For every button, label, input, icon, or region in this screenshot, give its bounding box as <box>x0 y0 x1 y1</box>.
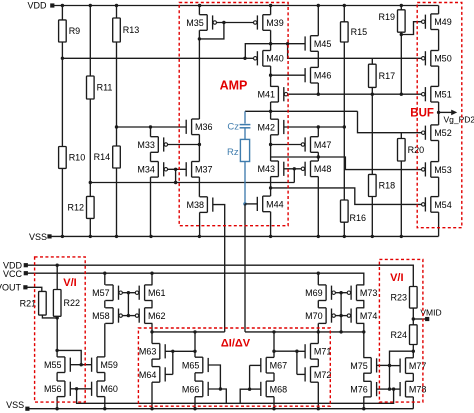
wire <box>61 168 63 236</box>
wire right bias rail y58 <box>288 44 422 59</box>
svg-text:M49: M49 <box>434 17 452 27</box>
wire <box>438 177 440 196</box>
junction gate tie upper <box>127 291 130 294</box>
junction R22 top <box>56 264 59 267</box>
junction M63 gate <box>171 350 174 353</box>
junction M71 gate <box>295 350 298 353</box>
transistor M45 <box>305 36 331 52</box>
wire <box>56 397 58 409</box>
junction VSS rail <box>61 235 64 238</box>
svg-text:M39: M39 <box>266 18 284 28</box>
wire M38 gate feedback <box>213 205 225 332</box>
svg-text:VOUT: VOUT <box>0 283 21 293</box>
junction VDD rail <box>89 4 92 7</box>
transistor M38 <box>186 197 212 213</box>
wire M44 gate <box>245 203 257 205</box>
svg-text:V/I: V/I <box>63 277 76 289</box>
junction R21-R22 <box>56 316 59 319</box>
wire <box>56 265 58 289</box>
junction M77 gate <box>388 364 391 367</box>
wire M56-M60 gate line <box>70 388 91 390</box>
wire <box>273 397 275 409</box>
wire <box>317 382 319 409</box>
junction VDD rail <box>198 4 201 7</box>
node R9 bottom <box>61 57 64 60</box>
junction VDD rail <box>61 4 64 7</box>
svg-text:M59: M59 <box>100 360 118 370</box>
svg-text:M58: M58 <box>92 311 110 321</box>
wire <box>56 373 58 382</box>
svg-text:Vg_PD2: Vg_PD2 <box>444 114 474 124</box>
svg-text:M42: M42 <box>257 122 275 132</box>
junction interconnect <box>362 330 365 333</box>
svg-text:BUF: BUF <box>410 108 434 120</box>
node VCC terminal <box>24 271 28 275</box>
resistor R10 <box>59 147 86 169</box>
wire rail y94 <box>288 93 422 95</box>
wire Cz to Rz <box>244 128 246 140</box>
junction VSS rail <box>198 235 201 238</box>
block border dI/dV <box>138 328 330 406</box>
junction M39 drain <box>269 42 272 45</box>
transistor M63 <box>139 344 165 360</box>
wire <box>343 6 345 22</box>
wire <box>400 133 402 139</box>
svg-text:M71: M71 <box>314 347 332 357</box>
wire <box>317 127 319 137</box>
wire <box>151 382 153 409</box>
svg-text:R23: R23 <box>390 293 407 303</box>
junction M40 drain <box>269 74 272 77</box>
junction VCC rail <box>150 272 153 275</box>
wire <box>412 308 414 325</box>
resistor R24 <box>390 325 417 345</box>
junction VSS rail <box>343 235 346 238</box>
svg-text:VSS: VSS <box>6 400 24 410</box>
junction rail y182 <box>174 181 177 184</box>
svg-text:M52: M52 <box>434 128 452 138</box>
svg-text:R10: R10 <box>69 153 86 163</box>
junction R15-R16 <box>343 125 346 128</box>
transistor M62 <box>135 308 165 324</box>
wire <box>198 30 200 119</box>
wire M40d to M46 gate <box>271 74 306 76</box>
wire M43 gate tie <box>284 168 302 170</box>
svg-text:Rz: Rz <box>227 147 239 158</box>
svg-text:M56: M56 <box>44 384 62 394</box>
wire <box>56 350 58 357</box>
transistor M42 <box>257 119 283 135</box>
transistor M51 <box>422 86 452 102</box>
svg-text:ΔI/ΔV: ΔI/ΔV <box>221 337 251 349</box>
junction interconnect <box>150 330 153 333</box>
transistor M69 <box>305 285 335 301</box>
resistor R18 <box>369 174 396 196</box>
wire VSS2 rail <box>27 408 413 410</box>
svg-text:R9: R9 <box>69 26 81 36</box>
wire <box>412 397 414 409</box>
wire feedback to bottom block <box>244 204 246 332</box>
wire R24 tie to gates <box>390 351 414 389</box>
node VSS terminal <box>47 234 51 238</box>
svg-text:M75: M75 <box>350 361 368 371</box>
wire M63 gate tie <box>165 350 195 352</box>
wire <box>317 177 319 237</box>
svg-text:M44: M44 <box>266 199 284 209</box>
svg-text:M76: M76 <box>350 385 368 395</box>
wire <box>104 397 106 409</box>
wire rail y111 <box>245 110 358 112</box>
junction M70 gate <box>339 314 342 317</box>
junction VSS2 rail <box>272 407 275 410</box>
wire <box>438 212 440 236</box>
svg-text:M65: M65 <box>182 360 200 370</box>
svg-text:M48: M48 <box>314 164 332 174</box>
svg-text:R12: R12 <box>67 203 84 213</box>
wire <box>317 51 319 67</box>
resistor R11 <box>87 76 113 99</box>
svg-text:M57: M57 <box>92 288 110 298</box>
junction VDD rail <box>343 4 346 7</box>
transistor M65 <box>182 357 208 373</box>
wire <box>150 127 152 137</box>
wire VOUT to R21 <box>25 287 42 291</box>
transistor M68 <box>261 381 287 397</box>
junction M35 diode tie <box>222 21 225 24</box>
resistor R16 <box>341 200 367 223</box>
wire <box>340 293 342 332</box>
wire M58-M62 gate tie <box>122 315 135 317</box>
wire M42 gate rail <box>284 126 345 128</box>
junction VSS rail <box>400 235 403 238</box>
wire <box>363 397 365 409</box>
junction VSS2 rail <box>317 407 320 410</box>
junction VSS2 rail <box>362 407 365 410</box>
junction M78 gate <box>388 387 391 390</box>
transistor M61 <box>135 285 165 301</box>
transistor M54 <box>422 197 452 213</box>
wire M64 gate <box>165 373 173 375</box>
wire <box>363 301 365 308</box>
svg-text:R15: R15 <box>351 27 368 37</box>
svg-text:M37: M37 <box>195 165 213 175</box>
wire M65-M66 gate tie <box>208 365 220 389</box>
junction VSS rail <box>269 235 272 238</box>
transistor M46 <box>305 67 331 83</box>
resistor R21 <box>20 291 47 315</box>
junction M33 source <box>149 125 152 128</box>
junction M41 drain <box>269 110 272 113</box>
svg-text:M51: M51 <box>434 90 452 100</box>
wire <box>371 87 373 174</box>
svg-text:M36: M36 <box>195 122 213 132</box>
wire M55 diode tie <box>57 350 81 364</box>
wire Rz bottom <box>244 162 246 204</box>
wire <box>61 6 63 20</box>
wire M75 gate <box>377 364 390 366</box>
transistor M74 <box>347 308 377 324</box>
resistor R22 <box>53 290 80 317</box>
svg-text:M43: M43 <box>257 164 275 174</box>
block border BUF <box>417 3 462 228</box>
transistor M58 <box>92 308 122 324</box>
wire M42d to M47 gate <box>271 144 302 146</box>
transistor M70 <box>305 308 335 324</box>
wire <box>116 6 118 19</box>
junction VSS rail <box>89 235 92 238</box>
junction M43 gate <box>293 167 296 170</box>
wire M52 gate line <box>358 111 422 132</box>
svg-text:R20: R20 <box>408 145 425 155</box>
junction M34 gate <box>174 168 177 171</box>
transistor M40 <box>254 51 284 67</box>
wire <box>412 345 414 352</box>
svg-text:M60: M60 <box>100 384 118 394</box>
svg-text:Cz: Cz <box>227 122 239 133</box>
wire <box>199 212 201 236</box>
wire <box>198 135 200 162</box>
junction R19 bottom <box>400 33 403 36</box>
node Vg_PD2 output arrow <box>439 110 474 125</box>
resistor Rz <box>227 139 250 161</box>
wire <box>56 316 58 350</box>
svg-text:M54: M54 <box>434 200 452 210</box>
wire <box>127 293 129 316</box>
wire <box>317 359 319 367</box>
svg-text:AMP: AMP <box>220 79 248 93</box>
wire <box>89 218 91 236</box>
junction M47-M48 <box>317 155 320 158</box>
svg-text:R16: R16 <box>350 213 367 223</box>
wire <box>438 102 440 125</box>
transistor M36 <box>186 119 212 135</box>
wire <box>61 58 63 146</box>
transistor M34 <box>137 162 167 178</box>
junction M35 drain <box>198 37 201 40</box>
node VSS2 terminal <box>25 407 29 411</box>
svg-text:R14: R14 <box>94 152 111 162</box>
svg-text:M61: M61 <box>148 288 166 298</box>
node VDD2 terminal <box>24 263 28 267</box>
wire Cz top connection <box>244 111 246 123</box>
svg-text:R11: R11 <box>97 83 113 93</box>
wire M78 gate stub <box>390 388 401 390</box>
resistor R14 <box>94 146 121 168</box>
transistor M50 <box>422 51 452 67</box>
svg-text:R18: R18 <box>379 181 396 191</box>
junction VSS2 rail <box>150 407 153 410</box>
wire <box>61 42 63 58</box>
wire <box>198 6 200 15</box>
wire M66 gate line <box>208 389 226 403</box>
wire <box>270 212 272 237</box>
wire <box>194 397 196 409</box>
junction VDD rail <box>269 4 272 7</box>
wire <box>116 168 118 236</box>
transistor M71 <box>305 344 331 360</box>
wire <box>363 373 365 381</box>
wire <box>317 301 319 308</box>
svg-text:M35: M35 <box>186 18 204 28</box>
svg-text:M73: M73 <box>360 288 378 298</box>
wire VDD2 rail <box>26 265 414 286</box>
wire M55-M59 gate line <box>70 364 91 366</box>
transistor M56 <box>44 381 70 397</box>
svg-text:M45: M45 <box>314 39 332 49</box>
wire <box>400 32 402 94</box>
wire <box>270 66 272 87</box>
junction M69 gate <box>339 291 342 294</box>
transistor M43 <box>257 161 283 177</box>
resistor R19 <box>378 10 405 32</box>
wire <box>317 273 319 285</box>
wire bias rail y127 <box>117 126 186 128</box>
svg-text:R21: R21 <box>20 298 37 308</box>
wire <box>400 161 402 236</box>
wire <box>343 42 345 200</box>
wire <box>371 197 373 237</box>
wire <box>151 323 153 343</box>
transistor M67 <box>261 357 287 373</box>
wire <box>343 222 345 236</box>
wire <box>400 6 402 10</box>
transistor M59 <box>92 357 118 373</box>
svg-text:M33: M33 <box>137 140 155 150</box>
transistor M75 <box>350 358 376 374</box>
wire <box>270 30 272 50</box>
svg-text:M53: M53 <box>434 165 452 175</box>
wire <box>438 141 440 162</box>
junction net split <box>286 42 289 45</box>
resistor R15 <box>341 22 368 42</box>
wire R17 top tap <box>371 58 373 64</box>
transistor M39 <box>254 15 284 31</box>
wire <box>104 273 106 285</box>
junction interconnect <box>317 330 320 333</box>
junction gate tie lower <box>127 314 130 317</box>
wire M77 gate stub <box>390 365 401 367</box>
wire <box>151 359 153 367</box>
transistor M78 <box>400 381 426 397</box>
node VMID junction <box>412 317 415 320</box>
transistor M37 <box>186 162 212 178</box>
wire <box>438 6 440 14</box>
wire <box>270 6 272 15</box>
wire to M71-M72 gates <box>274 350 297 352</box>
resistor R12 <box>67 196 94 218</box>
svg-text:M67: M67 <box>270 361 288 371</box>
wire <box>317 323 319 343</box>
junction Rz-M44 gate <box>243 202 247 206</box>
wire <box>104 323 106 357</box>
svg-text:M41: M41 <box>257 90 275 100</box>
resistor R20 <box>398 139 425 162</box>
svg-text:M47: M47 <box>314 140 332 150</box>
junction VDD rail <box>317 4 320 7</box>
wire M71 gate stub <box>297 350 305 352</box>
wire <box>270 177 272 197</box>
wire M40 gate stub <box>245 57 253 59</box>
transistor M77 <box>400 358 426 374</box>
wire net y157 <box>271 157 422 170</box>
junction VCC rail <box>317 272 320 275</box>
junction VSS2 rail <box>55 407 58 410</box>
wire <box>151 273 153 285</box>
wire <box>317 6 319 36</box>
junction long link end <box>392 387 395 390</box>
wire <box>199 23 224 39</box>
wire M33 gate to M36/M37 node <box>168 144 200 146</box>
junction VCC rail <box>103 272 106 275</box>
junction M65 source <box>193 350 196 353</box>
wire <box>104 373 106 382</box>
junction VSS rail <box>317 235 320 238</box>
wire R19 to M49 gate <box>401 22 421 35</box>
wire <box>89 183 91 197</box>
junction VSS2 rail <box>103 407 106 410</box>
wire <box>293 169 295 183</box>
node R13-R14 <box>115 125 118 128</box>
wire <box>363 323 365 357</box>
wire net y188 to M54 gate <box>271 188 422 205</box>
transistor M72 <box>305 367 331 383</box>
junction R17-R18 tap <box>371 93 374 96</box>
wire <box>273 373 275 381</box>
node R11 bottom <box>89 181 92 184</box>
junction M42 drain <box>269 143 272 146</box>
junction M43 drain <box>269 186 272 189</box>
transistor M53 <box>422 162 452 178</box>
junction M55 source <box>55 349 58 352</box>
svg-text:M50: M50 <box>434 54 452 64</box>
node Vg_PD2 <box>437 111 440 114</box>
wire <box>175 169 177 182</box>
wire <box>412 351 414 358</box>
wire <box>438 66 440 86</box>
wire <box>104 301 106 308</box>
svg-text:M63: M63 <box>139 347 157 357</box>
svg-text:M78: M78 <box>409 385 427 395</box>
transistor M33 <box>137 137 167 153</box>
svg-text:VCC: VCC <box>3 269 23 279</box>
svg-text:R24: R24 <box>390 330 407 340</box>
transistor M60 <box>92 381 118 397</box>
svg-text:M77: M77 <box>409 361 427 371</box>
junction M67 source <box>272 350 275 353</box>
block border V/I right <box>379 259 423 402</box>
wire <box>150 152 152 161</box>
wire M67-M68 gate drop <box>240 365 249 403</box>
svg-text:VDD: VDD <box>27 1 47 11</box>
junction M56 gate <box>75 387 78 390</box>
wire <box>198 177 200 197</box>
node VDD terminal <box>50 3 54 7</box>
transistor M64 <box>139 367 165 383</box>
wire <box>317 152 319 161</box>
wire <box>270 135 272 161</box>
svg-text:M62: M62 <box>148 311 166 321</box>
transistor M55 <box>44 357 70 373</box>
svg-text:M38: M38 <box>186 200 204 210</box>
block border V/I left <box>35 257 86 402</box>
junction VDD rail <box>400 4 403 7</box>
node VOUT terminal <box>23 285 27 289</box>
svg-text:M70: M70 <box>305 311 323 321</box>
transistor M47 <box>301 137 331 153</box>
svg-text:M72: M72 <box>314 370 332 380</box>
wire output interconnect right <box>245 331 364 333</box>
svg-text:M66: M66 <box>182 384 200 394</box>
